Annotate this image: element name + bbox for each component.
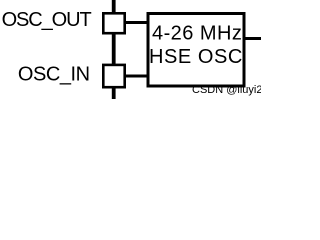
pin pad OSC_OUT [103, 13, 124, 33]
svg-text:4-26 MHz: 4-26 MHz [152, 23, 242, 45]
pin pad OSC_IN [103, 65, 124, 87]
wire vertical net through OSC pins [112, 0, 116, 99]
svg-text:OSC_OUT: OSC_OUT [2, 9, 92, 31]
oscillator block U1 HSE OSC [148, 14, 244, 87]
svg-text:OSC_IN: OSC_IN [18, 64, 90, 86]
wire OSC_OUT pad to HSE OSC block [125, 21, 148, 24]
svg-text:HSE OSC: HSE OSC [149, 46, 243, 68]
svg-text:CSDN @liuyi242: CSDN @liuyi242 [192, 84, 261, 96]
wire HSE OSC output to right [244, 37, 261, 40]
wire OSC_IN pad to HSE OSC block [125, 75, 148, 78]
